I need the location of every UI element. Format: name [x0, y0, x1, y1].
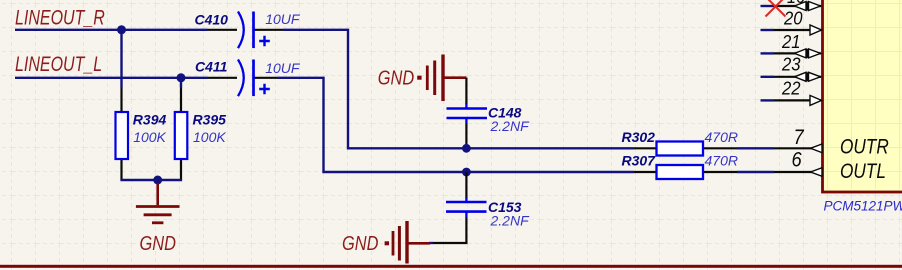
IC U? PCM5121PW body: [823, 0, 902, 192]
wire R395 top lead: [180, 78, 182, 88]
svg-text:R307: R307: [622, 152, 657, 168]
capacitor C411: [208, 60, 278, 97]
svg-text:R395: R395: [193, 112, 227, 128]
no-connect X on pin 19: [766, 0, 786, 17]
svg-text:6: 6: [792, 148, 802, 171]
capacitor C410: [208, 12, 284, 49]
svg-text:21: 21: [781, 31, 800, 52]
svg-text:16: 16: [787, 0, 805, 7]
svg-text:100K: 100K: [193, 129, 226, 145]
power port GND (top middle): [417, 55, 466, 102]
svg-text:2.2NF: 2.2NF: [490, 212, 531, 228]
svg-text:470R: 470R: [705, 129, 738, 145]
svg-text:GND: GND: [342, 231, 378, 254]
wire C153 to GND: [433, 217, 466, 243]
capacitor C153: [446, 198, 487, 218]
pin 20: [761, 7, 822, 35]
svg-text:C411: C411: [195, 58, 228, 74]
node junction LINEOUT_L / R395: [177, 73, 186, 82]
svg-text:20: 20: [783, 7, 803, 28]
capacitor C148: [447, 103, 488, 124]
wire GND to C148: [465, 78, 467, 104]
wire resistor bottoms to ground bus: [120, 159, 122, 180]
svg-text:R302: R302: [622, 129, 656, 145]
svg-text:OUTL: OUTL: [840, 160, 886, 183]
svg-text:PCM5121PW: PCM5121PW: [824, 199, 902, 214]
svg-text:LINEOUT_R: LINEOUT_R: [15, 6, 105, 30]
resistor R302: [634, 142, 737, 156]
svg-text:10UF: 10UF: [265, 60, 301, 76]
node junction ground bus: [153, 176, 162, 185]
svg-text:GND: GND: [140, 231, 176, 254]
decorative grid over IC body: [824, 0, 902, 189]
pin 7 (OUTR): [774, 126, 822, 153]
svg-text:22: 22: [781, 77, 801, 98]
resistor R394: [116, 112, 129, 159]
svg-text:GND: GND: [378, 66, 414, 89]
svg-text:LINEOUT_L: LINEOUT_L: [15, 53, 102, 77]
pin 22: [761, 77, 822, 105]
svg-text:10UF: 10UF: [265, 11, 301, 27]
svg-text:23: 23: [781, 53, 801, 74]
svg-text:C410: C410: [195, 11, 229, 27]
wire C148 to OUTR net: [465, 124, 467, 149]
svg-text:2.2NF: 2.2NF: [490, 118, 531, 134]
ground GND (below R394/R395): [136, 183, 180, 223]
wire OUTR net: C410 right to corner down to R302, and R302 to pin 7: [284, 30, 775, 149]
pin 21: [761, 31, 822, 58]
svg-text:OUTR: OUTR: [840, 136, 889, 159]
node junction LINEOUT_R / R394: [117, 25, 126, 34]
wire LINEOUT_R horizontal: [15, 29, 208, 31]
svg-text:7: 7: [794, 126, 805, 149]
power port GND (bottom middle): [385, 221, 430, 264]
resistor R307: [634, 165, 737, 179]
svg-text:470R: 470R: [705, 153, 738, 169]
wire LINEOUT_L horizontal: [15, 77, 208, 79]
sheet border bottom: [0, 265, 902, 268]
wire OUTL net: C411 right to corner down to R307, and R307 to pin 6: [277, 78, 774, 172]
pin 6 (OUTL): [774, 148, 822, 176]
svg-text:R394: R394: [133, 112, 167, 128]
svg-text:100K: 100K: [133, 129, 166, 145]
wire OUTL net to C153: [465, 172, 467, 199]
node junction C148/OUTR: [462, 144, 471, 153]
wire R394 top lead: [120, 30, 122, 88]
resistor R395: [175, 112, 188, 159]
pin 19 (no-connect, top cut): [761, 0, 822, 11]
node junction C153/OUTL: [462, 168, 471, 177]
pin 23: [761, 53, 822, 81]
